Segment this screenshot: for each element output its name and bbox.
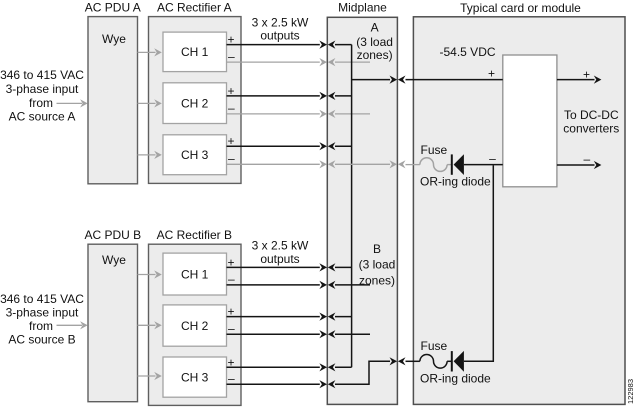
label - CH 1 (A) bbox=[228, 49, 235, 63]
svg-text:AC Rectifier B: AC Rectifier B bbox=[157, 228, 232, 242]
wire -54.5 VDC feed (midplane to card) bbox=[352, 76, 503, 84]
label Fuse (A) bbox=[421, 143, 448, 157]
svg-text:OR-ing diode: OR-ing diode bbox=[420, 175, 491, 189]
wire PDU B to CH 1 bbox=[138, 270, 162, 278]
wire PDU A to CH 3 bbox=[138, 151, 162, 159]
label CH 2 (B) bbox=[181, 319, 209, 333]
wire CH 1- (B) bbox=[227, 281, 371, 289]
label CH 3 (B) bbox=[181, 370, 209, 384]
label AC Rectifier B bbox=[157, 228, 232, 242]
svg-text:–: – bbox=[228, 49, 235, 63]
svg-text:122983: 122983 bbox=[626, 379, 635, 404]
fuse F1 (A) bbox=[420, 158, 452, 172]
svg-text:AC PDU B: AC PDU B bbox=[84, 228, 141, 242]
svg-text:–: – bbox=[228, 371, 235, 385]
label - CH 3 (A) bbox=[228, 152, 235, 166]
svg-text:Typical card or module: Typical card or module bbox=[460, 1, 581, 15]
svg-text:–: – bbox=[228, 101, 235, 115]
wire CH 2- (A) bbox=[227, 110, 371, 118]
svg-text:To DC-DCconverters: To DC-DCconverters bbox=[563, 108, 619, 135]
Midplane box bbox=[327, 17, 397, 404]
AC Rectifier A box bbox=[149, 17, 242, 184]
label Typical card or module bbox=[460, 1, 581, 15]
label - converter input bbox=[489, 151, 496, 165]
wire PDU B to CH 2 bbox=[138, 321, 162, 329]
label OR-ing diode (B) bbox=[420, 372, 491, 386]
svg-text:3 x 2.5 kWoutputs: 3 x 2.5 kWoutputs bbox=[252, 239, 309, 266]
label + CH 1 (A) bbox=[227, 33, 234, 47]
rectifier B CH 1 box bbox=[163, 253, 227, 295]
label + CH 3 (A) bbox=[227, 134, 234, 148]
wire CH 2- (B) bbox=[227, 330, 371, 338]
svg-text:3 x 2.5 kWoutputs: 3 x 2.5 kWoutputs bbox=[252, 15, 309, 42]
OR-ing diode D2 (B) bbox=[451, 351, 494, 372]
wire CH 1- (A) bbox=[227, 58, 371, 66]
svg-text:CH 1: CH 1 bbox=[181, 45, 209, 59]
svg-text:–: – bbox=[228, 321, 235, 335]
wire CH 1+ (A) to midplane bus bbox=[227, 41, 352, 49]
svg-text:+: + bbox=[227, 134, 234, 148]
label + CH 2 (A) bbox=[227, 84, 234, 98]
svg-text:AC Rectifier A: AC Rectifier A bbox=[157, 0, 232, 14]
label Midplane bbox=[338, 0, 387, 14]
rectifier A CH 1 box bbox=[163, 32, 227, 72]
svg-text:–: – bbox=[228, 152, 235, 166]
svg-text:+: + bbox=[227, 33, 234, 47]
svg-text:CH 3: CH 3 bbox=[181, 148, 209, 162]
svg-text:+: + bbox=[488, 66, 495, 80]
wire B CH3- route to fuse B bbox=[335, 357, 420, 384]
svg-text:–: – bbox=[228, 272, 235, 286]
AC PDU B box bbox=[88, 244, 138, 402]
svg-text:CH 3: CH 3 bbox=[181, 370, 209, 384]
svg-text:+: + bbox=[227, 355, 234, 369]
input arrow from AC source A bbox=[57, 99, 88, 107]
wire A CH3- to fuse A (through midplane) bbox=[335, 160, 420, 168]
svg-text:-54.5 VDC: -54.5 VDC bbox=[440, 45, 496, 59]
DC-DC converter block U1 bbox=[503, 55, 557, 187]
wire CH 3+ (A) to midplane bus bbox=[227, 142, 352, 150]
input arrow from AC source B bbox=[57, 321, 88, 329]
midplane common + bus bbox=[351, 45, 353, 368]
wire CH 1+ (B) to midplane bus bbox=[227, 263, 352, 271]
AC Rectifier B box bbox=[149, 244, 242, 405]
svg-text:AC PDU A: AC PDU A bbox=[85, 0, 141, 14]
label Wye B bbox=[102, 253, 126, 267]
svg-text:–: – bbox=[583, 152, 590, 166]
wire PDU B to CH 3 bbox=[138, 372, 162, 380]
Typical card or module box bbox=[413, 17, 625, 405]
svg-text:Fuse: Fuse bbox=[421, 339, 448, 353]
label - CH 1 (B) bbox=[228, 272, 235, 286]
svg-text:Fuse: Fuse bbox=[421, 143, 448, 157]
svg-text:Wye: Wye bbox=[102, 253, 126, 267]
label - CH 2 (B) bbox=[228, 321, 235, 335]
svg-text:+: + bbox=[227, 305, 234, 319]
wire + output to DC-DC converters bbox=[557, 76, 602, 84]
svg-text:Midplane: Midplane bbox=[338, 0, 387, 14]
label OR-ing diode (A) bbox=[420, 175, 491, 189]
label - CH 2 (A) bbox=[228, 101, 235, 115]
rectifier B CH 2 box bbox=[163, 305, 227, 346]
label Wye A bbox=[102, 32, 126, 46]
label + CH 3 (B) bbox=[227, 355, 234, 369]
label - CH 3 (B) bbox=[228, 371, 235, 385]
label - output bbox=[583, 152, 590, 166]
rectifier B CH 3 box bbox=[163, 357, 227, 397]
wire PDU A to CH 1 bbox=[138, 48, 162, 56]
svg-text:Wye: Wye bbox=[102, 32, 126, 46]
label + output bbox=[583, 67, 590, 81]
svg-text:CH 2: CH 2 bbox=[181, 96, 209, 110]
wire CH 3+ (B) to midplane bus bbox=[227, 363, 352, 371]
svg-text:–: – bbox=[489, 151, 496, 165]
figure number 122983 bbox=[626, 379, 635, 404]
label CH 3 (A) bbox=[181, 148, 209, 162]
rectifier A CH 2 box bbox=[163, 83, 227, 124]
svg-text:+: + bbox=[227, 84, 234, 98]
AC source A input text bbox=[0, 68, 84, 124]
AC PDU A box bbox=[88, 17, 138, 184]
wire CH 2+ (B) to midplane bus bbox=[227, 313, 352, 321]
label CH 2 (A) bbox=[181, 96, 209, 110]
AC source B input text bbox=[0, 292, 84, 347]
label CH 1 (A) bbox=[181, 45, 209, 59]
label Fuse (B) bbox=[421, 339, 448, 353]
wire CH 2+ (A) to midplane bus bbox=[227, 92, 352, 100]
svg-text:OR-ing diode: OR-ing diode bbox=[420, 372, 491, 386]
label AC PDU A bbox=[85, 0, 141, 14]
label + converter input bbox=[488, 66, 495, 80]
label + CH 2 (B) bbox=[227, 305, 234, 319]
wire PDU A to CH 2 bbox=[138, 99, 162, 107]
label AC PDU B bbox=[84, 228, 141, 242]
label -54.5 VDC bbox=[440, 45, 496, 59]
wire CH 3- (B) bbox=[227, 380, 336, 388]
svg-text:CH 2: CH 2 bbox=[181, 319, 209, 333]
rectifier A CH 3 box bbox=[163, 135, 227, 175]
svg-text:CH 1: CH 1 bbox=[181, 267, 209, 281]
svg-text:346 to 415 VAC3-phase inputfro: 346 to 415 VAC3-phase inputfromAC source… bbox=[0, 68, 84, 124]
svg-text:+: + bbox=[583, 67, 590, 81]
label 3 x 2.5 kW outputs (B) bbox=[252, 239, 309, 266]
wire - output to DC-DC converters bbox=[557, 161, 602, 169]
svg-text:+: + bbox=[227, 255, 234, 269]
label 3 x 2.5 kW outputs (A) bbox=[252, 15, 309, 42]
label load zone A bbox=[356, 21, 393, 62]
label AC Rectifier A bbox=[157, 0, 232, 14]
wire CH 3- (A) bbox=[227, 160, 336, 168]
OR-ing diode D1 (A) bbox=[451, 154, 503, 175]
label To DC-DC converters bbox=[563, 108, 619, 135]
label CH 1 (B) bbox=[181, 267, 209, 281]
wire OR-diode B output tie to node minus bbox=[492, 165, 494, 362]
label load zone B bbox=[359, 242, 396, 287]
svg-text:346 to 415 VAC3-phase inputfro: 346 to 415 VAC3-phase inputfromAC source… bbox=[0, 292, 84, 347]
label + CH 1 (B) bbox=[227, 255, 234, 269]
fuse F2 (B) bbox=[420, 355, 452, 369]
